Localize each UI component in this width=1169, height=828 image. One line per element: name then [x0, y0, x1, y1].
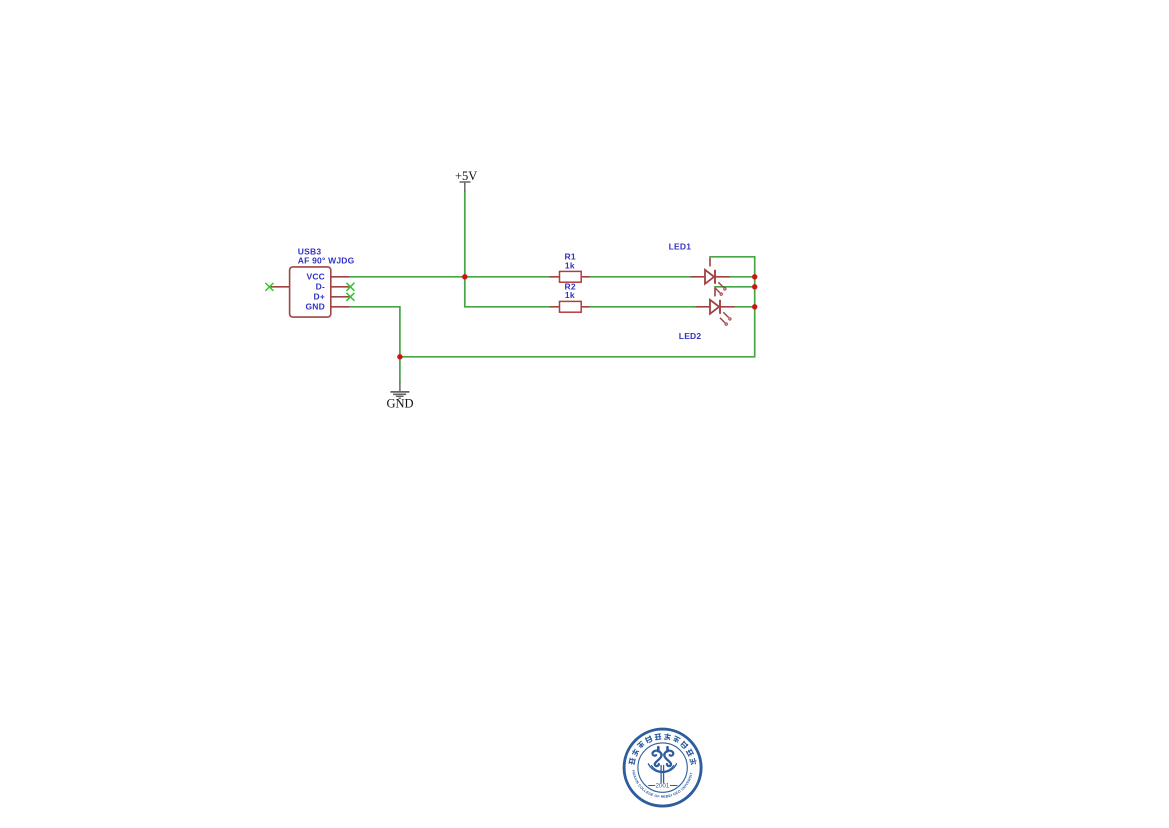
- svg-text:1k: 1k: [565, 290, 575, 300]
- svg-text:D-: D-: [316, 282, 325, 292]
- svg-text:VCC: VCC: [306, 272, 325, 282]
- svg-text:AF 90° WJDG: AF 90° WJDG: [298, 255, 355, 265]
- svg-text:+5V: +5V: [455, 169, 477, 183]
- svg-text:GND: GND: [306, 302, 326, 312]
- svg-text:D+: D+: [313, 292, 325, 302]
- svg-text:1k: 1k: [565, 261, 575, 271]
- svg-text:LED1: LED1: [669, 241, 692, 251]
- svg-text:2001: 2001: [656, 783, 670, 790]
- svg-text:GND: GND: [386, 397, 413, 411]
- svg-text:LED2: LED2: [679, 331, 702, 341]
